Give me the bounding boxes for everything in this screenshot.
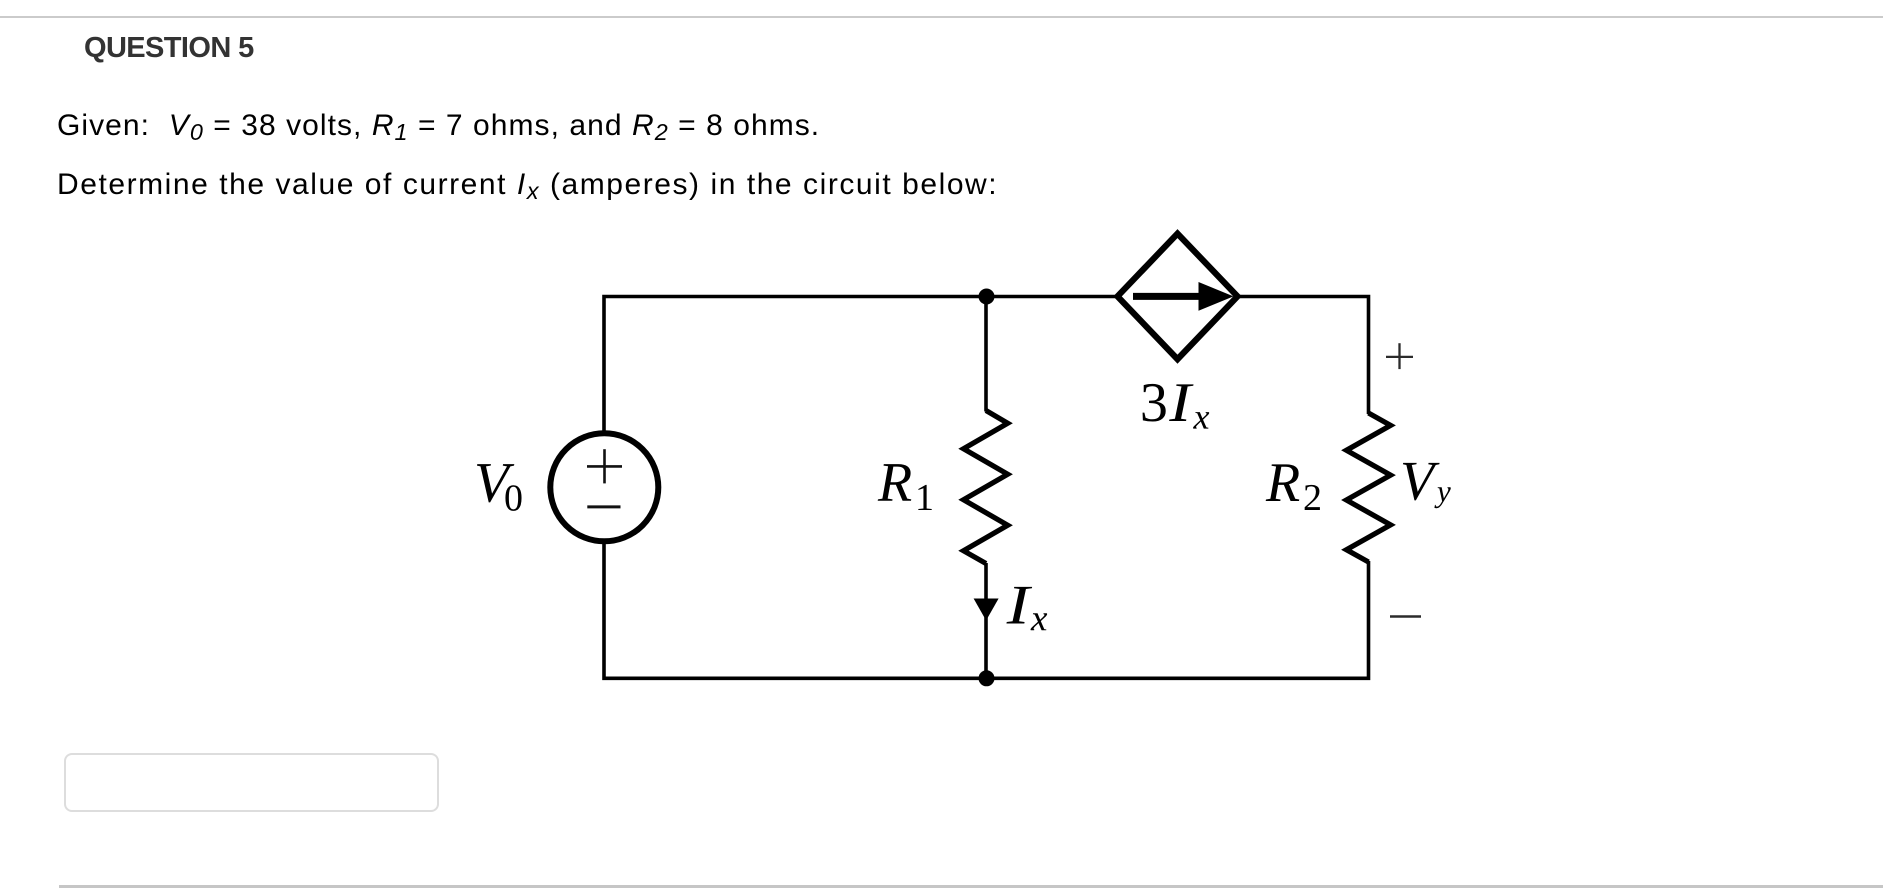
label R1 (878, 464, 932, 510)
node B (bottom junction dot) (979, 670, 995, 686)
label Vy (1403, 463, 1451, 508)
wire: dependent source right terminal to top-right corner and down to R2 top (1240, 297, 1369, 415)
wire: bottom rail from node B to bottom-left corner and up to V0 bottom terminal (604, 541, 987, 678)
wire: node A to dependent source left terminal (987, 295, 1116, 299)
resistor R1 (zigzag) (964, 411, 1008, 564)
dependent current source 3Ix (diamond with right arrow) (1118, 234, 1238, 360)
determine text line (57, 170, 998, 200)
given text line (57, 111, 820, 141)
wire: R1 bottom down to node B (984, 563, 988, 678)
wire: R2 bottom down to bottom-right corner and along bottom rail to node B (987, 561, 1369, 678)
answer input box (64, 753, 439, 812)
polarity plus for Vy (1386, 343, 1413, 369)
label 3Ix (1143, 384, 1210, 429)
polarity minus for Vy (1390, 615, 1421, 618)
label Ix (1006, 587, 1047, 630)
wire: from V0 top terminal up and along top rail to node A (604, 297, 987, 435)
voltage source V0 (circle with plus/minus) (550, 433, 658, 541)
label R2 (1266, 464, 1320, 510)
top divider line (0, 16, 1883, 18)
resistor R2 (zigzag) (1346, 413, 1390, 562)
wire: node A down to R1 top (984, 297, 988, 412)
label V0 (477, 464, 522, 511)
question heading (84, 34, 254, 63)
current arrow Ix (head pointing down) (974, 599, 999, 621)
node A (top junction dot) (979, 289, 995, 305)
bottom divider line (59, 885, 1883, 888)
